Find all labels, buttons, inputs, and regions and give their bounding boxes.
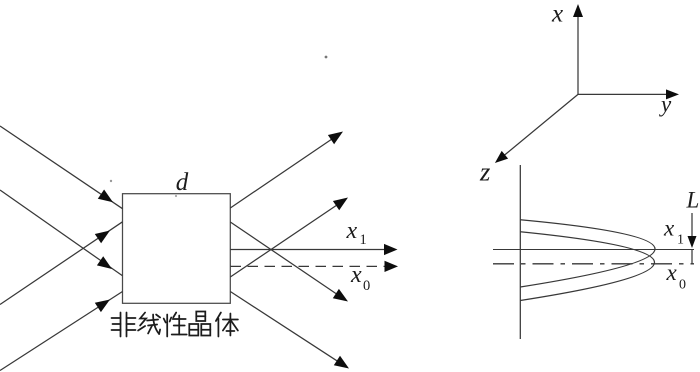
svg-text:0: 0 [363, 278, 370, 294]
svg-text:1: 1 [360, 232, 367, 248]
scan speck 1 [325, 56, 328, 59]
beam envelope curve A [520, 220, 655, 287]
crystal box [123, 194, 231, 304]
svg-text:0: 0 [679, 278, 686, 293]
label x1 left [346, 218, 367, 248]
svg-text:x: x [346, 218, 358, 244]
svg-text:d: d [176, 169, 189, 196]
svg-text:y: y [659, 92, 672, 117]
waist x1 axis solid line [493, 249, 694, 251]
label x0 left [350, 262, 370, 294]
incoming beam D [0, 292, 123, 371]
char 体 [216, 313, 238, 337]
outgoing beam R6 down-right [230, 292, 349, 369]
beam envelope curve B [520, 232, 654, 301]
outgoing beam R5 up-right [230, 198, 348, 278]
char 晶 [189, 312, 210, 336]
label nonlinear crystal (hand-drawn CJK) [112, 312, 238, 337]
x axis vertical [573, 4, 583, 94]
svg-text:x: x [350, 262, 362, 288]
incoming beam A [0, 126, 123, 209]
char 性 [164, 313, 187, 337]
L dimension arrow down [688, 213, 697, 264]
char 线 [138, 313, 160, 335]
svg-text:x: x [551, 1, 563, 28]
outgoing beam R2 down-right [230, 222, 348, 302]
scan speck 2 [110, 180, 112, 182]
label x1 right [663, 216, 684, 248]
incoming beam C [0, 222, 123, 305]
waist x0 axis dash-dot line [493, 263, 694, 265]
svg-text:x: x [663, 216, 675, 241]
waist figure vertical line [519, 165, 521, 339]
label x0 right [666, 260, 687, 293]
outgoing beam R1 up-right [230, 132, 343, 209]
char 非 [112, 313, 136, 337]
svg-text:L: L [686, 188, 700, 213]
y axis horizontal [578, 89, 679, 99]
scan speck 3 [175, 195, 177, 197]
svg-text:1: 1 [677, 233, 684, 248]
z axis diagonal [495, 94, 578, 163]
beam x0 axis dashed arrow [231, 261, 399, 272]
svg-text:x: x [666, 260, 678, 285]
incoming beam B [0, 190, 123, 276]
svg-text:z: z [479, 157, 490, 187]
beam x1 axis solid arrow [230, 244, 397, 255]
